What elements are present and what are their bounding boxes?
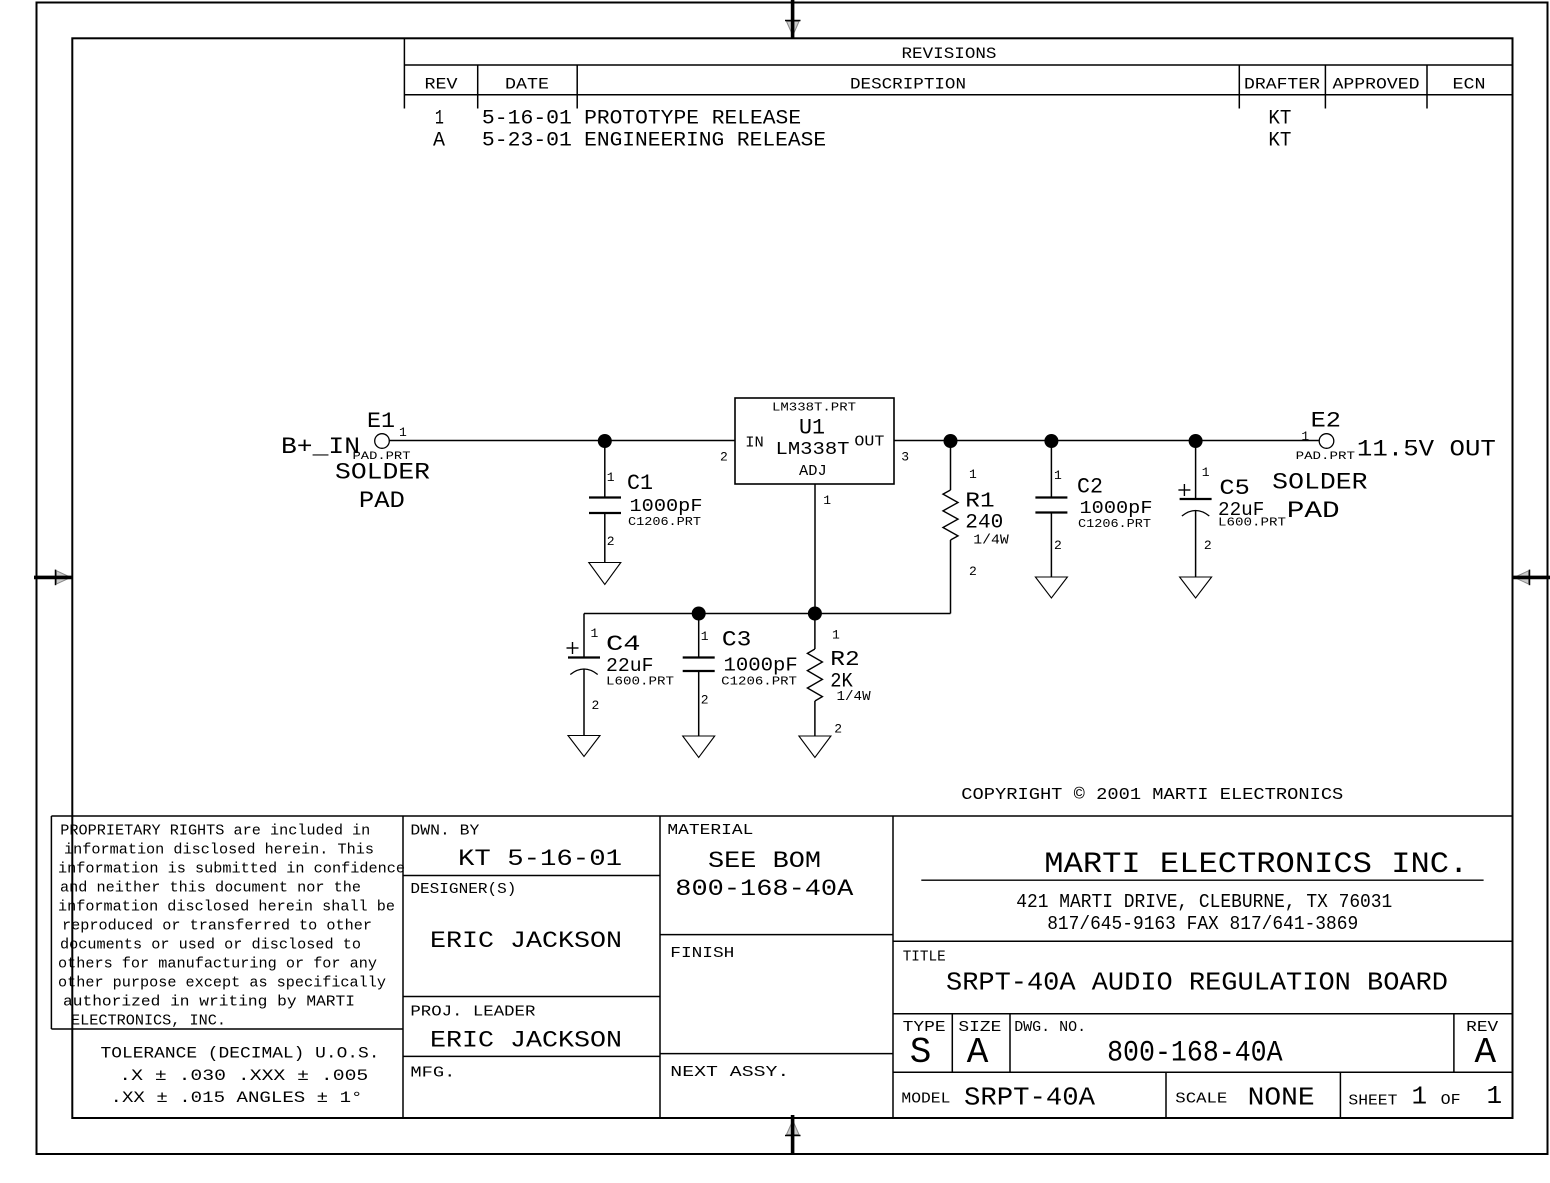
junction node C5 bbox=[1189, 434, 1203, 448]
svg-text:NEXT ASSY.: NEXT ASSY. bbox=[670, 1064, 789, 1081]
svg-text:DATE: DATE bbox=[505, 76, 549, 94]
svg-text:KT 5-16-01: KT 5-16-01 bbox=[458, 846, 622, 872]
wire E1 to U1 IN bbox=[389, 440, 735, 442]
svg-text:1: 1 bbox=[832, 628, 840, 643]
svg-text:U1: U1 bbox=[799, 416, 825, 441]
svg-text:DESCRIPTION: DESCRIPTION bbox=[850, 76, 966, 94]
junction node C1 bbox=[598, 434, 612, 448]
svg-text:other purpose except as specif: other purpose except as specifically bbox=[58, 975, 386, 992]
svg-text:others for manufacturing or fo: others for manufacturing or for any bbox=[58, 956, 377, 973]
wire U1 ADJ pin down bbox=[814, 484, 816, 614]
svg-text:1: 1 bbox=[701, 629, 709, 644]
svg-text:5-16-01: 5-16-01 bbox=[482, 108, 572, 131]
svg-text:1: 1 bbox=[1487, 1081, 1503, 1111]
svg-text:reproduced or transferred to o: reproduced or transferred to other bbox=[62, 918, 372, 935]
svg-text:MODEL: MODEL bbox=[901, 1091, 950, 1108]
svg-text:817/645-9163 FAX 817/641-3869: 817/645-9163 FAX 817/641-3869 bbox=[1047, 913, 1358, 935]
svg-text:A: A bbox=[1475, 1032, 1497, 1073]
svg-text:PAD: PAD bbox=[1287, 498, 1340, 524]
top center alignment arrow bbox=[785, 0, 801, 38]
svg-text:3: 3 bbox=[901, 450, 909, 465]
svg-text:2: 2 bbox=[607, 534, 615, 549]
svg-text:SRPT-40A: SRPT-40A bbox=[964, 1083, 1095, 1113]
svg-text:MATERIAL: MATERIAL bbox=[667, 822, 753, 839]
svg-text:C1: C1 bbox=[627, 471, 653, 496]
svg-text:IN: IN bbox=[745, 434, 764, 451]
resistor R2 bbox=[807, 614, 822, 737]
svg-text:1: 1 bbox=[591, 626, 599, 641]
svg-text:LM338T.PRT: LM338T.PRT bbox=[772, 401, 856, 415]
svg-text:L600.PRT: L600.PRT bbox=[606, 675, 674, 689]
svg-text:DWN. BY: DWN. BY bbox=[410, 823, 479, 840]
C5 plus sign bbox=[1178, 484, 1190, 496]
svg-text:and neither this document nor: and neither this document nor the bbox=[60, 880, 361, 897]
svg-text:5-23-01: 5-23-01 bbox=[482, 130, 572, 153]
tolerance note bbox=[101, 1045, 380, 1108]
svg-text:2: 2 bbox=[834, 721, 842, 736]
svg-text:APPROVED: APPROVED bbox=[1333, 76, 1420, 94]
svg-text:REV: REV bbox=[425, 76, 458, 94]
svg-text:ERIC JACKSON: ERIC JACKSON bbox=[430, 928, 622, 954]
svg-text:1000pF: 1000pF bbox=[724, 654, 798, 676]
svg-text:C1206.PRT: C1206.PRT bbox=[1078, 517, 1151, 531]
lower bus wire bbox=[584, 613, 951, 615]
svg-text:ERIC JACKSON: ERIC JACKSON bbox=[430, 1027, 622, 1053]
svg-text:PROJ. LEADER: PROJ. LEADER bbox=[410, 1003, 535, 1020]
svg-text:R2: R2 bbox=[830, 649, 859, 672]
ground below C2 bbox=[1035, 577, 1067, 598]
svg-text:REVISIONS: REVISIONS bbox=[902, 45, 997, 63]
svg-text:SRPT-40A AUDIO REGULATION BOAR: SRPT-40A AUDIO REGULATION BOARD bbox=[946, 968, 1448, 998]
polarized capacitor C5 bbox=[1180, 441, 1212, 577]
resistor R1 bbox=[943, 441, 958, 614]
svg-text:information is submitted in co: information is submitted in confidence bbox=[58, 861, 405, 878]
company name underline bbox=[921, 879, 1483, 881]
svg-text:A: A bbox=[433, 130, 445, 153]
svg-text:C2: C2 bbox=[1077, 475, 1103, 500]
svg-text:C3: C3 bbox=[722, 628, 752, 653]
svg-text:1: 1 bbox=[1054, 468, 1062, 483]
svg-text:2: 2 bbox=[1204, 538, 1212, 553]
svg-text:1: 1 bbox=[1202, 465, 1210, 480]
svg-text:SCALE: SCALE bbox=[1175, 1091, 1227, 1108]
svg-text:SOLDER: SOLDER bbox=[1272, 469, 1368, 495]
svg-text:.X ± .030 .XXX ± .005: .X ± .030 .XXX ± .005 bbox=[119, 1067, 368, 1085]
svg-text:240: 240 bbox=[965, 512, 1003, 535]
svg-text:DRAFTER: DRAFTER bbox=[1244, 76, 1320, 94]
svg-text:2: 2 bbox=[1054, 538, 1062, 553]
svg-text:1: 1 bbox=[435, 108, 444, 131]
svg-text:PROPRIETARY RIGHTS are include: PROPRIETARY RIGHTS are included in bbox=[60, 823, 370, 840]
junction node R2-ADJ bbox=[808, 607, 822, 621]
svg-text:OUT: OUT bbox=[854, 433, 884, 450]
svg-text:1: 1 bbox=[607, 470, 615, 485]
svg-text:NONE: NONE bbox=[1248, 1083, 1315, 1113]
wire U1 OUT to E2 bbox=[894, 440, 1319, 442]
svg-text:2: 2 bbox=[592, 698, 600, 713]
left center alignment arrow bbox=[34, 570, 73, 586]
right center alignment arrow bbox=[1512, 570, 1550, 586]
svg-text:2: 2 bbox=[969, 564, 977, 579]
svg-text:800-168-40A: 800-168-40A bbox=[675, 876, 853, 902]
svg-text:1: 1 bbox=[1412, 1082, 1428, 1112]
svg-text:SEE BOM: SEE BOM bbox=[708, 848, 821, 874]
svg-text:COPYRIGHT © 2001 MARTI ELECTRO: COPYRIGHT © 2001 MARTI ELECTRONICS bbox=[961, 786, 1343, 805]
svg-text:C4: C4 bbox=[606, 632, 641, 657]
svg-text:R1: R1 bbox=[965, 490, 994, 513]
E2 SOLDER PAD note bbox=[1272, 469, 1368, 524]
E1 SOLDER PAD note bbox=[335, 460, 430, 514]
svg-text:1: 1 bbox=[399, 425, 407, 440]
svg-text:22uF: 22uF bbox=[606, 655, 654, 677]
junction node R1 bbox=[944, 434, 958, 448]
ground below C4 bbox=[568, 736, 600, 757]
svg-text:ECN: ECN bbox=[1453, 76, 1486, 94]
solder pad E1 bbox=[375, 434, 390, 449]
svg-text:C5: C5 bbox=[1219, 476, 1249, 501]
svg-text:KT: KT bbox=[1268, 130, 1291, 153]
svg-text:PAD.PRT: PAD.PRT bbox=[1296, 451, 1356, 463]
svg-text:E2: E2 bbox=[1311, 408, 1341, 433]
svg-text:MARTI ELECTRONICS INC.: MARTI ELECTRONICS INC. bbox=[1044, 848, 1468, 882]
svg-text:800-168-40A: 800-168-40A bbox=[1107, 1037, 1283, 1071]
bottom center alignment arrow bbox=[785, 1115, 801, 1155]
svg-text:11.5V OUT: 11.5V OUT bbox=[1357, 437, 1496, 463]
svg-text:ELECTRONICS, INC.: ELECTRONICS, INC. bbox=[71, 1013, 226, 1030]
svg-text:DWG. NO.: DWG. NO. bbox=[1014, 1019, 1086, 1036]
svg-text:B+_IN: B+_IN bbox=[281, 434, 360, 460]
svg-text:S: S bbox=[910, 1032, 932, 1073]
junction node C2 bbox=[1044, 434, 1058, 448]
svg-text:1000pF: 1000pF bbox=[630, 497, 703, 517]
proprietary rights paragraph bbox=[58, 823, 405, 1030]
svg-text:PAD: PAD bbox=[359, 488, 405, 514]
revisions table grid bbox=[404, 38, 1511, 108]
svg-text:FINISH: FINISH bbox=[670, 945, 734, 962]
svg-text:MFG.: MFG. bbox=[410, 1065, 455, 1082]
svg-text:authorized in writing by MARTI: authorized in writing by MARTI bbox=[63, 994, 355, 1011]
svg-text:421 MARTI DRIVE, CLEBURNE, TX: 421 MARTI DRIVE, CLEBURNE, TX 76031 bbox=[1016, 891, 1392, 913]
svg-text:PROTOTYPE RELEASE: PROTOTYPE RELEASE bbox=[584, 108, 801, 131]
svg-text:2: 2 bbox=[701, 693, 709, 708]
svg-text:ENGINEERING RELEASE: ENGINEERING RELEASE bbox=[584, 130, 826, 153]
polarized capacitor C4 bbox=[568, 614, 600, 736]
svg-text:OF: OF bbox=[1441, 1092, 1461, 1109]
svg-text:1: 1 bbox=[1301, 429, 1309, 444]
svg-text:C1206.PRT: C1206.PRT bbox=[628, 515, 701, 529]
svg-text:LM338T: LM338T bbox=[776, 440, 850, 460]
svg-text:KT: KT bbox=[1268, 108, 1291, 131]
svg-text:2: 2 bbox=[720, 450, 728, 465]
svg-text:TOLERANCE (DECIMAL) U.O.S.: TOLERANCE (DECIMAL) U.O.S. bbox=[101, 1045, 380, 1063]
svg-text:TITLE: TITLE bbox=[903, 949, 946, 966]
junction node C3 bbox=[692, 607, 706, 621]
C4 plus sign bbox=[567, 642, 579, 654]
svg-text:documents or used or disclosed: documents or used or disclosed to bbox=[60, 937, 361, 954]
svg-text:DESIGNER(S): DESIGNER(S) bbox=[410, 881, 516, 898]
svg-text:L600.PRT: L600.PRT bbox=[1218, 516, 1286, 530]
capacitor C1 bbox=[589, 441, 621, 563]
op-amp regulator U1 box bbox=[735, 398, 894, 484]
svg-text:1: 1 bbox=[969, 467, 977, 482]
svg-text:SOLDER: SOLDER bbox=[335, 460, 430, 486]
title block grid bbox=[51, 816, 1511, 1117]
svg-text:1000pF: 1000pF bbox=[1080, 499, 1153, 519]
ground below R2 bbox=[799, 736, 831, 758]
capacitor C3 bbox=[683, 614, 715, 737]
svg-text:A: A bbox=[967, 1032, 989, 1073]
ground below C5 bbox=[1180, 577, 1212, 598]
svg-text:C1206.PRT: C1206.PRT bbox=[721, 674, 797, 688]
ground below C1 bbox=[589, 563, 621, 585]
ground below C3 bbox=[683, 736, 715, 758]
svg-text:information disclosed herein s: information disclosed herein shall be bbox=[58, 899, 395, 916]
svg-text:SHEET: SHEET bbox=[1348, 1093, 1397, 1110]
svg-text:1/4W: 1/4W bbox=[837, 689, 872, 705]
capacitor C2 bbox=[1035, 441, 1067, 577]
svg-text:1/4W: 1/4W bbox=[973, 533, 1009, 549]
svg-text:information disclosed herein.: information disclosed herein. This bbox=[64, 842, 374, 859]
solder pad E2 bbox=[1319, 434, 1334, 449]
svg-text:E1: E1 bbox=[367, 409, 395, 434]
svg-text:.XX ± .015 ANGLES ± 1°: .XX ± .015 ANGLES ± 1° bbox=[111, 1089, 363, 1107]
svg-text:ADJ: ADJ bbox=[799, 463, 827, 480]
svg-text:1: 1 bbox=[823, 493, 831, 508]
